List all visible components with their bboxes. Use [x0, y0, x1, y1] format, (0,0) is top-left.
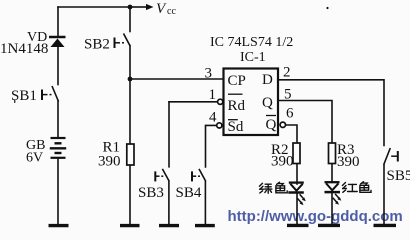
- svg-text:IC-1: IC-1: [240, 50, 266, 65]
- svg-text:1: 1: [209, 87, 217, 103]
- svg-text:SB4: SB4: [176, 185, 202, 201]
- svg-text:390: 390: [98, 154, 121, 170]
- svg-text:SB5: SB5: [387, 168, 410, 184]
- svg-text:cc: cc: [167, 6, 176, 17]
- svg-text:Q: Q: [266, 117, 277, 133]
- svg-text:http://www.go-gddq.com: http://www.go-gddq.com: [228, 208, 403, 225]
- svg-text:SB3: SB3: [138, 185, 164, 201]
- svg-text:5: 5: [284, 87, 292, 103]
- svg-text:CP: CP: [228, 73, 246, 89]
- svg-text:Rd: Rd: [228, 98, 246, 114]
- svg-text:Q: Q: [262, 95, 273, 111]
- svg-text:D: D: [262, 72, 273, 88]
- svg-text:6: 6: [286, 106, 294, 122]
- svg-text:1N4148: 1N4148: [0, 41, 48, 57]
- svg-text:3: 3: [205, 66, 213, 82]
- svg-text:6V: 6V: [26, 151, 43, 166]
- svg-text:2: 2: [283, 65, 291, 81]
- svg-text:390: 390: [337, 154, 360, 170]
- svg-text:390: 390: [271, 154, 294, 170]
- svg-text:IC 74LS74 1/2: IC 74LS74 1/2: [210, 35, 293, 50]
- svg-text:SB2: SB2: [84, 37, 110, 53]
- svg-text:Sd: Sd: [228, 119, 244, 135]
- svg-text:4: 4: [209, 110, 217, 126]
